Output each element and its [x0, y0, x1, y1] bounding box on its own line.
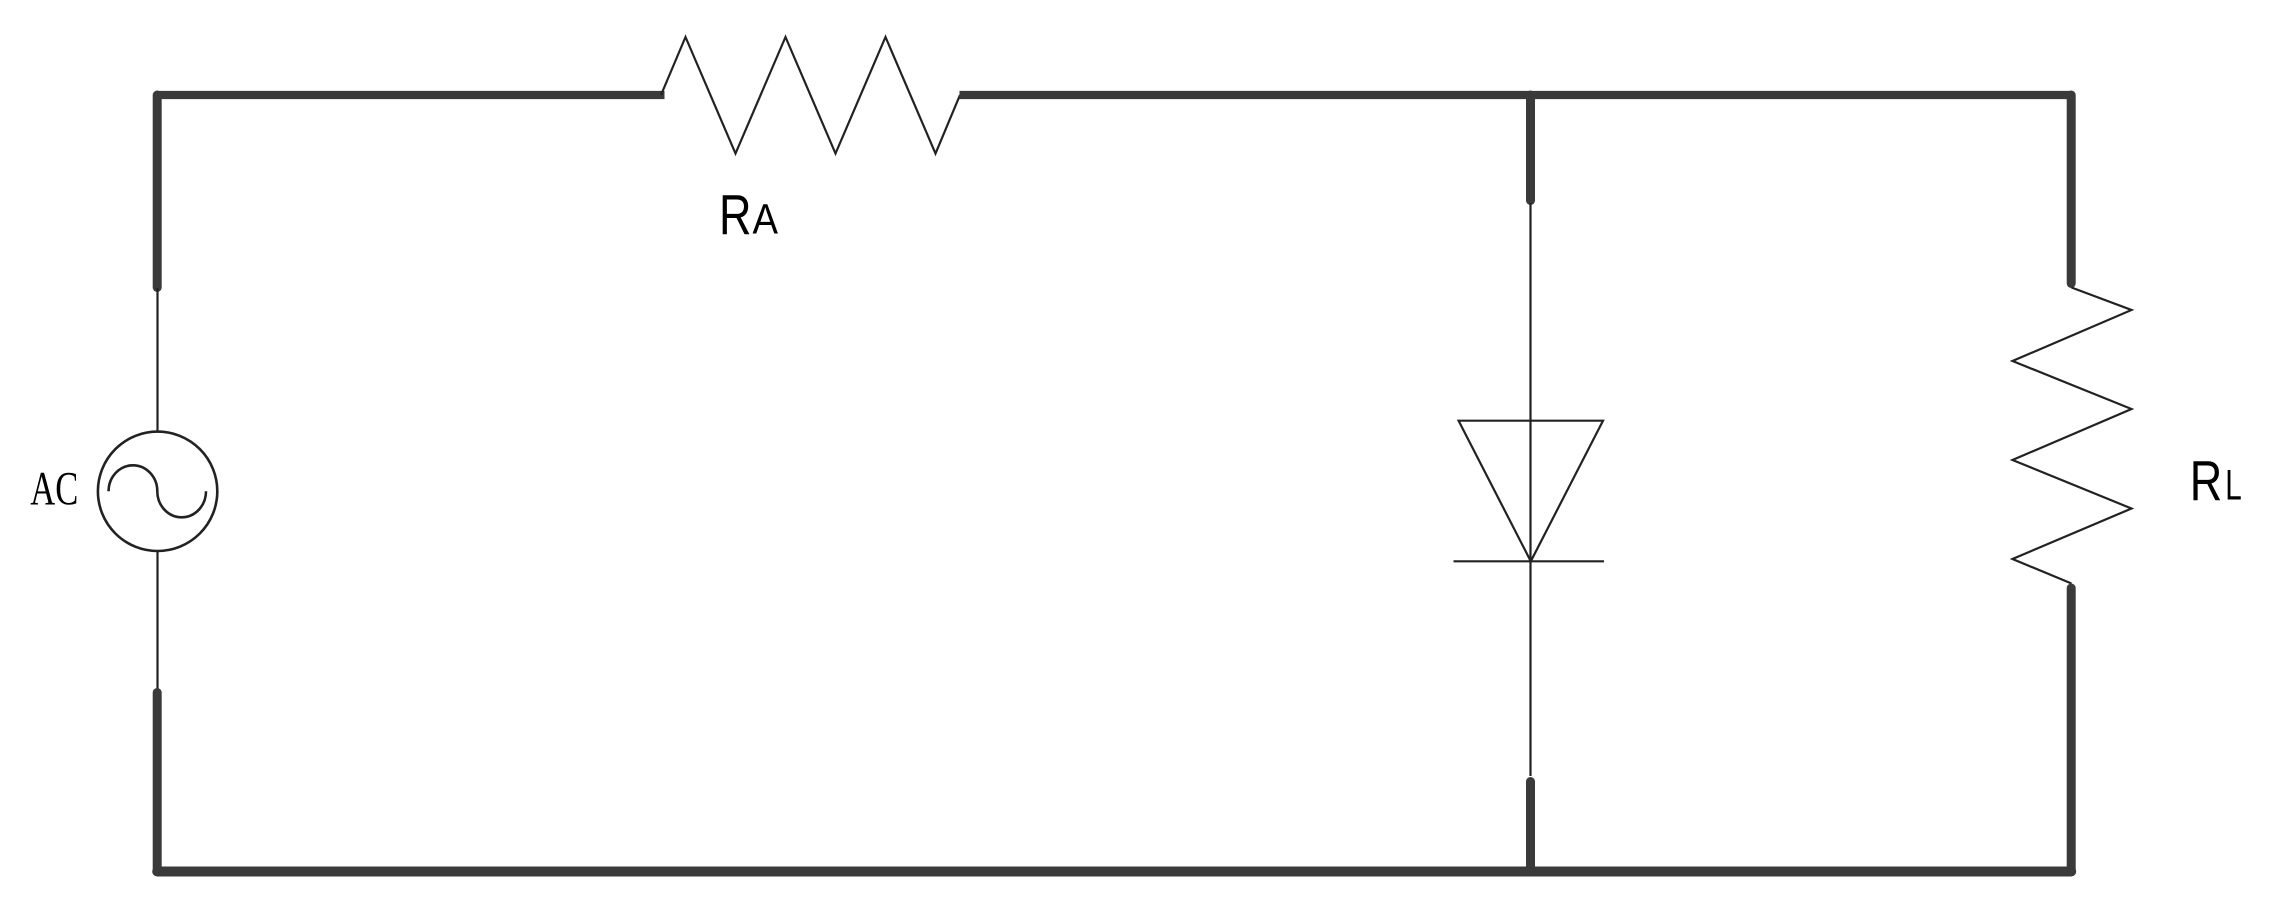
wire: thin lead from left wire to AC source: [156, 288, 158, 431]
wire: middle vertical lower thick: [1526, 782, 1535, 872]
label RA: [719, 183, 779, 247]
AC source: sine wave: [109, 465, 206, 517]
wire: left vertical upper thick: [153, 95, 162, 288]
wire: middle thin cathode lead: [1529, 561, 1531, 776]
wire: left vertical lower thick: [153, 693, 162, 872]
resistor RL zigzag: [2013, 288, 2132, 584]
wire: middle vertical upper thick (node from top wire): [1526, 95, 1535, 201]
wire: bottom horizontal: [157, 867, 2071, 877]
wire: right vertical lower thick: [2067, 588, 2076, 872]
wire: middle thin anode lead: [1529, 203, 1531, 561]
wire: right vertical upper thick: [2067, 95, 2076, 284]
svg-text:R: R: [2190, 449, 2223, 513]
wire: thin lead below AC source: [156, 552, 158, 689]
svg-text:A: A: [753, 197, 779, 244]
svg-text:L: L: [2225, 463, 2242, 510]
AC source: circle: [98, 432, 217, 551]
diode D1: triangle: [1459, 421, 1603, 562]
label RL: [2190, 449, 2242, 513]
svg-text:AC: AC: [30, 463, 78, 516]
diode D1: cathode bar: [1454, 560, 1605, 562]
wire: top horizontal right segment: [960, 91, 2072, 99]
svg-text:R: R: [719, 183, 752, 247]
resistor RA zigzag: [661, 37, 960, 154]
wire: top horizontal left segment: [157, 91, 664, 99]
